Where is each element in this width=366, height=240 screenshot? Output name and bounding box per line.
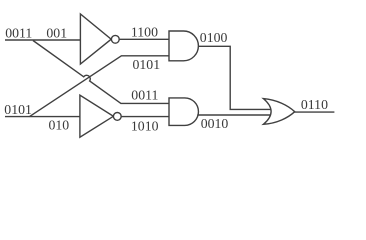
svg-text:1010: 1010 (131, 119, 159, 134)
wire top input rail (signal 0011) (5, 39, 80, 41)
node B branch: bottom rail to AND1 (30, 56, 170, 117)
wire output (signal 0110) (295, 111, 335, 113)
wire U2 output to AND2 (signal 1010) (121, 116, 169, 118)
AND gate U3 (169, 31, 198, 61)
svg-text:1100: 1100 (131, 25, 158, 40)
svg-text:010: 010 (49, 118, 70, 133)
inverter U1 bubble (111, 35, 119, 43)
AND gate U4 (169, 98, 198, 126)
svg-text:0110: 0110 (301, 97, 328, 112)
svg-text:0100: 0100 (200, 30, 228, 45)
svg-text:0101: 0101 (133, 57, 161, 72)
node A branch: top rail to AND2 (line with hop over other wire) (33, 41, 169, 104)
OR gate U5 (263, 99, 294, 125)
svg-text:0101: 0101 (4, 102, 32, 117)
svg-text:0011: 0011 (5, 26, 32, 41)
wire U1 output to AND1 (signal 1100) (119, 38, 169, 40)
inverter U1 triangle (80, 14, 111, 64)
svg-text:001: 001 (46, 26, 67, 41)
svg-text:0010: 0010 (201, 116, 229, 131)
inverter U2 triangle (80, 95, 114, 137)
wire bottom input rail (signal 0101) (5, 116, 80, 118)
svg-text:0011: 0011 (131, 88, 158, 103)
inverter U2 bubble (113, 113, 121, 121)
wire U3 output elbow down to OR (signal 0100) (199, 46, 272, 109)
wire U4 output to OR (signal 0010) (197, 114, 271, 116)
